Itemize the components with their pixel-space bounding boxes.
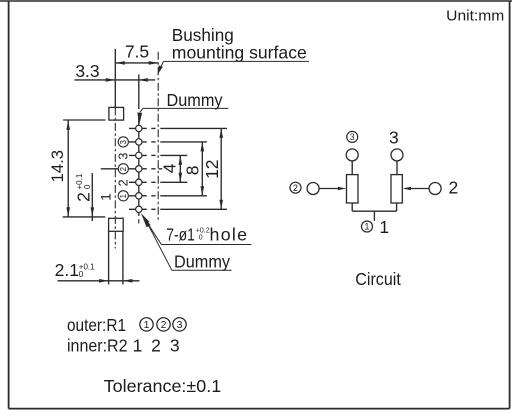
svg-text:0: 0	[79, 270, 84, 279]
svg-text:outer:R1: outer:R1	[67, 315, 126, 335]
svg-text:2: 2	[449, 177, 459, 197]
svg-text:Circuit: Circuit	[355, 269, 401, 289]
svg-text:12: 12	[202, 159, 222, 178]
svg-text:0: 0	[83, 184, 92, 189]
svg-text:3: 3	[119, 140, 128, 144]
svg-text:1: 1	[144, 319, 150, 331]
svg-text:2: 2	[151, 336, 161, 356]
svg-text:2: 2	[74, 192, 94, 202]
svg-text:1: 1	[119, 194, 128, 198]
svg-text:8: 8	[183, 166, 203, 176]
svg-text:2.1: 2.1	[55, 260, 79, 280]
svg-text:1: 1	[99, 193, 114, 201]
svg-text:Unit:mm: Unit:mm	[446, 8, 504, 25]
svg-text:hole: hole	[210, 224, 249, 244]
svg-text:mounting surface: mounting surface	[172, 42, 307, 62]
svg-text:1: 1	[379, 217, 389, 237]
svg-text:1: 1	[133, 336, 143, 356]
svg-text:3: 3	[116, 153, 130, 160]
svg-text:Tolerance:±0.1: Tolerance:±0.1	[104, 376, 222, 396]
svg-text:inner:R2: inner:R2	[67, 336, 128, 356]
svg-text:14.3: 14.3	[48, 150, 67, 183]
svg-text:3.3: 3.3	[75, 61, 99, 81]
svg-text:2: 2	[116, 179, 130, 186]
svg-text:Dummy: Dummy	[174, 252, 230, 272]
svg-text:Dummy: Dummy	[167, 90, 223, 110]
svg-text:3: 3	[170, 336, 180, 356]
svg-text:3: 3	[350, 132, 355, 142]
svg-text:+0.2: +0.2	[196, 228, 210, 235]
svg-text:7-ø1: 7-ø1	[166, 224, 195, 244]
svg-text:7.5: 7.5	[125, 42, 149, 62]
svg-text:2: 2	[293, 183, 298, 193]
svg-text:0: 0	[199, 235, 203, 242]
svg-text:3: 3	[389, 127, 399, 147]
svg-text:1: 1	[365, 222, 370, 232]
svg-text:3: 3	[177, 319, 183, 331]
svg-text:2: 2	[119, 167, 128, 171]
svg-text:2: 2	[161, 319, 167, 331]
